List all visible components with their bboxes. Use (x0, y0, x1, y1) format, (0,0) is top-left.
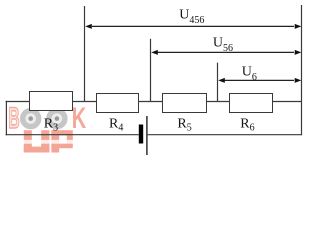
wire bottom right (148, 134, 302, 136)
wire left stub (6, 101, 30, 103)
wire R5 to R6 (206, 101, 230, 103)
resistor R4 (97, 94, 139, 113)
wire bottom left (6, 134, 139, 136)
wire mid vertical for U6 (217, 63, 219, 102)
resistor R6 (230, 94, 273, 113)
wire R4 to R5 (138, 101, 163, 103)
voltage arrow U56 (151, 50, 301, 55)
resistor R5 (163, 94, 207, 113)
svg-text:B: B (8, 103, 19, 135)
voltage arrow U6 (218, 78, 301, 83)
battery B1 positive plate (146, 116, 148, 155)
wire mid vertical for U56 (150, 39, 152, 102)
resistor R3 (30, 92, 73, 111)
svg-text:K: K (72, 102, 86, 135)
wire R3 to R4 (72, 101, 97, 103)
battery B1 negative plate (139, 125, 143, 144)
wire left vertical (5, 101, 7, 135)
voltage arrow U456 (85, 24, 301, 29)
wire R6 to right side (272, 101, 302, 103)
wire right vertical (301, 5, 303, 135)
wire left tall vertical (84, 6, 86, 102)
